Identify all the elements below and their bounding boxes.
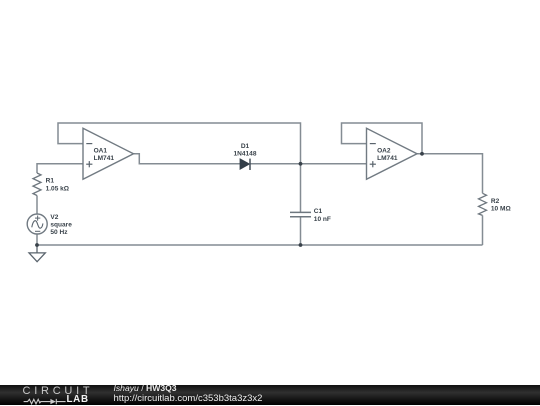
CircuitLab logo LAB text <box>67 396 89 404</box>
wire <box>37 244 483 246</box>
svg-text:R2: R2 <box>491 198 500 205</box>
wire <box>482 215 484 245</box>
svg-text:D1: D1 <box>241 143 250 150</box>
CircuitLab logo schematic row <box>22 397 68 406</box>
svg-text:LM741: LM741 <box>377 155 398 162</box>
node A <box>299 162 303 166</box>
resistor R1 <box>33 173 69 196</box>
svg-text:1N4148: 1N4148 <box>234 150 257 157</box>
op-amp OA2 <box>367 128 418 179</box>
diode D1 <box>234 143 257 170</box>
svg-text:1.05 kΩ: 1.05 kΩ <box>46 186 69 193</box>
wire <box>417 154 483 194</box>
wire <box>134 154 241 164</box>
capacitor C1 <box>290 208 331 223</box>
svg-text:LM741: LM741 <box>94 155 115 162</box>
CircuitLab logo <box>23 386 103 397</box>
svg-text:10 nF: 10 nF <box>314 216 331 223</box>
wire <box>37 164 83 173</box>
svg-text:R1: R1 <box>46 178 55 185</box>
node C <box>299 243 303 247</box>
voltage source V2 <box>27 214 72 236</box>
wire <box>36 234 38 245</box>
wire <box>300 217 302 245</box>
svg-text:OA2: OA2 <box>377 147 391 154</box>
ground <box>29 245 45 262</box>
wire <box>36 196 38 215</box>
op-amp OA1 <box>83 128 134 179</box>
svg-text:OA1: OA1 <box>94 147 108 154</box>
svg-text:50 Hz: 50 Hz <box>50 229 68 236</box>
node B <box>420 152 424 156</box>
wire <box>250 163 367 165</box>
resistor R2 <box>479 193 511 215</box>
wire <box>58 123 301 164</box>
wire <box>342 123 423 154</box>
node D <box>35 243 39 247</box>
svg-text:V2: V2 <box>50 214 58 221</box>
svg-text:10 MΩ: 10 MΩ <box>491 206 511 213</box>
svg-text:C1: C1 <box>314 208 323 215</box>
svg-text:square: square <box>50 222 72 229</box>
wire <box>300 164 302 212</box>
attribution line 2 <box>114 394 263 403</box>
attribution line 1 <box>114 385 177 393</box>
